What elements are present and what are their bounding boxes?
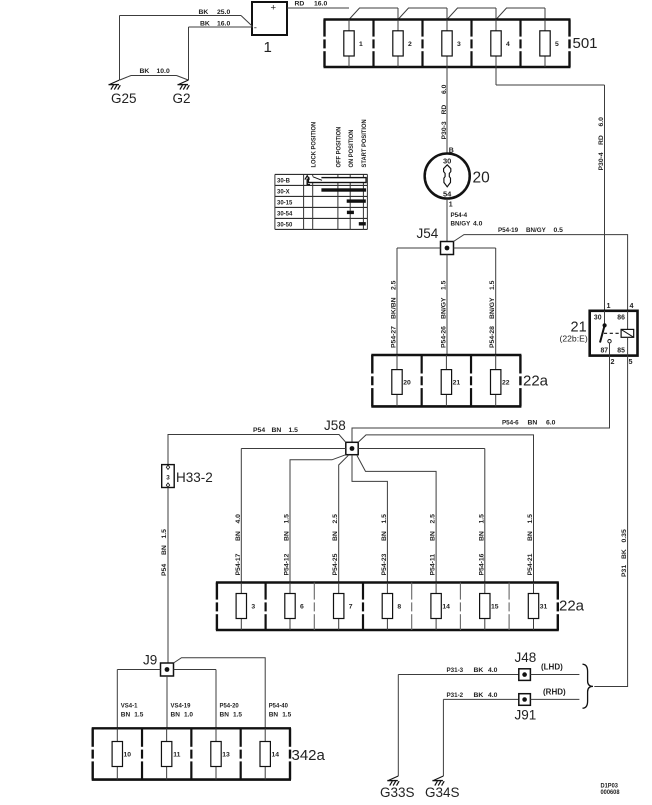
svg-text:1.0: 1.0 <box>184 712 193 719</box>
svg-text:10: 10 <box>124 752 132 759</box>
fuse 7 <box>334 583 353 631</box>
svg-text:P54-12: P54-12 <box>284 553 291 575</box>
wire P54-25 BN 2.5 to fuse 7 <box>332 455 349 583</box>
svg-text:4.0: 4.0 <box>473 221 483 228</box>
svg-text:BK: BK <box>199 9 209 16</box>
svg-text:13: 13 <box>222 752 230 759</box>
fuse 15 <box>480 583 499 631</box>
svg-text:30-50: 30-50 <box>277 221 293 228</box>
svg-text:G33S: G33S <box>380 785 415 800</box>
wire P30-4 RD 6.0 <box>496 67 605 311</box>
wire VS4-19 BN 1.0 to fuse 11 <box>167 676 193 728</box>
svg-text:1.5: 1.5 <box>282 712 291 719</box>
svg-text:14: 14 <box>271 752 279 759</box>
fusebox 501 internal bus link <box>349 8 545 20</box>
svg-text:(RHD): (RHD) <box>543 688 566 697</box>
wire P54-20 BN 1.5 to fuse 13 <box>174 670 243 729</box>
wire P54-19 BN/GY 0.5 <box>454 227 628 311</box>
svg-text:BN: BN <box>220 712 230 719</box>
svg-text:6.0: 6.0 <box>441 84 448 94</box>
fuse 3 <box>442 20 461 68</box>
svg-text:P54: P54 <box>253 427 265 434</box>
svg-text:2.5: 2.5 <box>332 514 339 524</box>
svg-text:20: 20 <box>403 380 411 387</box>
svg-text:1.5: 1.5 <box>478 514 485 524</box>
svg-text:342a: 342a <box>292 747 326 764</box>
ignition key symbol <box>444 165 451 187</box>
svg-text:P54-40: P54-40 <box>269 702 289 709</box>
wire P54 BN 1.5 to J9 <box>161 488 168 664</box>
svg-text:-: - <box>254 23 257 34</box>
fuse 13 <box>211 728 230 779</box>
svg-text:3: 3 <box>251 604 255 611</box>
wire J91 to brace <box>530 698 579 700</box>
svg-text:BN: BN <box>269 712 279 719</box>
junction J54 <box>441 242 454 255</box>
fuse 31 <box>528 583 547 631</box>
wire P54-6 BN 6.0 <box>352 356 610 443</box>
svg-text:BK: BK <box>621 549 628 559</box>
svg-text:6.0: 6.0 <box>598 117 605 127</box>
fuse 10 <box>112 728 131 779</box>
wire P30-3 RD 6.0 <box>441 67 448 154</box>
svg-text:20: 20 <box>473 170 491 187</box>
svg-text:J9: J9 <box>143 653 157 668</box>
svg-text:86: 86 <box>617 314 625 321</box>
svg-text:30-54: 30-54 <box>277 210 293 217</box>
fuse 2 <box>393 20 412 68</box>
table bar row 30-B with return arrow <box>305 176 366 185</box>
svg-text:6: 6 <box>300 604 304 611</box>
fusebox 22a lower <box>216 583 559 631</box>
svg-text:P54-23: P54-23 <box>381 553 388 575</box>
fuse 8 <box>382 583 401 631</box>
svg-text:4.0: 4.0 <box>235 514 242 524</box>
wire P31 BK 0.35 <box>594 356 628 687</box>
svg-text:3: 3 <box>166 475 170 482</box>
svg-text:15: 15 <box>491 604 499 611</box>
svg-text:P54-16: P54-16 <box>478 553 485 575</box>
svg-text:P54-26: P54-26 <box>441 326 448 348</box>
svg-text:P54: P54 <box>161 564 168 576</box>
svg-text:0.5: 0.5 <box>554 227 564 234</box>
svg-text:BN: BN <box>478 531 485 541</box>
svg-text:BN: BN <box>430 531 437 541</box>
svg-text:BK: BK <box>200 20 210 27</box>
ground G33S <box>387 776 399 786</box>
svg-text:BK: BK <box>474 692 484 699</box>
svg-text:J58: J58 <box>324 418 346 433</box>
ground G25 <box>109 80 121 90</box>
svg-text:4.0: 4.0 <box>488 667 498 674</box>
svg-text:6.0: 6.0 <box>546 420 556 427</box>
svg-text:7: 7 <box>349 604 353 611</box>
fuse 14 <box>431 583 450 631</box>
svg-text:30: 30 <box>594 314 602 321</box>
svg-text:P54-21: P54-21 <box>527 553 534 575</box>
fusebox 501 <box>324 20 571 68</box>
svg-text:P54-6: P54-6 <box>502 419 519 426</box>
svg-text:RD: RD <box>441 105 448 115</box>
svg-text:RD: RD <box>295 1 305 8</box>
svg-text:BN/GY: BN/GY <box>441 297 448 319</box>
wire P54-17 BN 4.0 to fuse 3 <box>235 449 346 583</box>
svg-text:BN: BN <box>272 427 282 434</box>
svg-text:BN/GY: BN/GY <box>451 220 471 227</box>
svg-text:1.5: 1.5 <box>233 712 242 719</box>
table bar row 30-50 <box>359 222 366 225</box>
document number D1P03 000608 <box>601 783 621 796</box>
svg-text:ON POSITION: ON POSITION <box>349 130 355 168</box>
svg-text:+: + <box>271 3 277 14</box>
wire BK 10.0 between G25 and G2 <box>120 68 188 80</box>
ground G2 <box>178 80 190 90</box>
svg-text:BN: BN <box>284 531 291 541</box>
svg-text:P54-28: P54-28 <box>489 326 496 348</box>
svg-text:J48: J48 <box>515 650 537 665</box>
svg-text:22: 22 <box>502 380 510 387</box>
relay contact and arm <box>600 311 607 343</box>
svg-text:BK: BK <box>140 68 150 75</box>
svg-text:BN: BN <box>528 420 538 427</box>
svg-text:BK: BK <box>474 667 484 674</box>
svg-text:BN/GY: BN/GY <box>489 297 496 319</box>
fuse 14 <box>260 728 279 779</box>
svg-text:P54-11: P54-11 <box>430 554 437 576</box>
wire P54-11 BN 2.5 to fuse 14 <box>357 456 437 583</box>
svg-text:P30-4: P30-4 <box>598 152 605 170</box>
svg-text:P31-2: P31-2 <box>447 692 464 699</box>
svg-text:J91: J91 <box>515 708 537 723</box>
svg-text:2.5: 2.5 <box>391 280 398 290</box>
svg-text:1: 1 <box>607 301 611 310</box>
svg-text:1: 1 <box>264 39 272 56</box>
svg-text:P54-20: P54-20 <box>220 702 240 709</box>
svg-text:BN: BN <box>381 531 388 541</box>
svg-text:0.35: 0.35 <box>621 529 628 542</box>
svg-text:21: 21 <box>453 380 461 387</box>
wire P54-28 BN/GY 1.5 <box>454 248 497 355</box>
svg-text:P54-25: P54-25 <box>332 553 339 575</box>
svg-text:(22b:E): (22b:E) <box>560 334 588 344</box>
fusebox 342a <box>92 728 291 779</box>
svg-text:P31: P31 <box>621 565 628 577</box>
svg-text:P31-3: P31-3 <box>447 667 464 674</box>
fuse 1 <box>344 20 363 68</box>
svg-text:14: 14 <box>442 604 450 611</box>
svg-text:31: 31 <box>540 604 548 611</box>
svg-text:G25: G25 <box>111 91 137 106</box>
svg-text:16.0: 16.0 <box>217 20 230 27</box>
wire P54-16 BN 1.5 to fuse 15 <box>358 449 485 583</box>
wire P54-40 BN 1.5 to fuse 14 <box>174 658 292 729</box>
wire P54-12 BN 1.5 to fuse 6 <box>284 455 346 583</box>
svg-text:BN: BN <box>235 531 242 541</box>
svg-text:4: 4 <box>630 301 634 310</box>
svg-text:G34S: G34S <box>425 785 460 800</box>
relay terminal 87 contact circle <box>608 337 628 355</box>
svg-text:G2: G2 <box>173 91 191 106</box>
svg-text:000608: 000608 <box>601 790 621 796</box>
svg-text:BK/BN: BK/BN <box>391 297 398 319</box>
junction J58 <box>346 442 358 454</box>
svg-text:BN: BN <box>332 531 339 541</box>
svg-text:J54: J54 <box>417 226 439 241</box>
wire P54 BN 1.5 <box>168 427 346 465</box>
svg-text:BN: BN <box>527 531 534 541</box>
svg-text:1.5: 1.5 <box>284 514 291 524</box>
junction J9 <box>161 663 174 676</box>
junction J91 <box>519 694 531 706</box>
svg-text:VS4-1: VS4-1 <box>121 702 138 709</box>
svg-text:1: 1 <box>449 202 453 209</box>
svg-text:OFF POSITION: OFF POSITION <box>336 127 342 168</box>
wire J48 to brace <box>530 674 579 676</box>
table bar row 30-54 <box>347 211 354 214</box>
svg-text:BN: BN <box>161 545 168 555</box>
svg-text:2.5: 2.5 <box>430 514 437 524</box>
svg-text:P54-19: P54-19 <box>498 227 518 234</box>
wire P54-4 BN/GY 4.0 <box>447 199 483 242</box>
ignition switch 20 <box>424 153 470 199</box>
fuse 5 <box>540 20 559 68</box>
table bar row 30-X <box>321 188 366 191</box>
table bar row 30-15 <box>347 199 366 202</box>
svg-text:START POSITION: START POSITION <box>362 119 368 167</box>
fuse 3 <box>236 583 255 631</box>
wire P31-3 BK 4.0 to G33S <box>398 667 519 776</box>
svg-text:2: 2 <box>611 357 615 366</box>
svg-text:54: 54 <box>443 190 452 199</box>
svg-text:85: 85 <box>617 347 625 354</box>
svg-text:BN: BN <box>171 712 181 719</box>
svg-text:1.5: 1.5 <box>381 514 388 524</box>
svg-text:22a: 22a <box>523 373 549 390</box>
svg-text:25.0: 25.0 <box>217 9 230 16</box>
svg-text:4: 4 <box>506 41 510 48</box>
wire VS4-1 BN 1.5 to fuse 10 <box>117 670 160 729</box>
svg-text:P30-3: P30-3 <box>441 121 448 139</box>
svg-text:1.5: 1.5 <box>161 529 168 539</box>
svg-text:BN/GY: BN/GY <box>526 227 546 234</box>
junction J48 <box>519 669 531 681</box>
battery 1 <box>252 2 287 35</box>
svg-text:P54-4: P54-4 <box>451 212 468 219</box>
svg-text:5: 5 <box>629 357 633 366</box>
brace LHD/RHD selector <box>583 664 594 708</box>
fuse 21 <box>441 355 460 406</box>
svg-text:30: 30 <box>443 157 451 166</box>
wire P54-23 BN 1.5 to fuse 8 <box>352 455 388 583</box>
svg-text:(LHD): (LHD) <box>541 663 563 672</box>
svg-text:1.5: 1.5 <box>441 280 448 290</box>
fuse 20 <box>392 355 411 406</box>
svg-text:P54-27: P54-27 <box>391 326 398 348</box>
svg-text:H33-2: H33-2 <box>176 470 213 485</box>
ignition switch position table <box>275 174 368 229</box>
svg-text:501: 501 <box>573 35 598 52</box>
svg-text:RD: RD <box>598 135 605 145</box>
svg-text:1.5: 1.5 <box>134 712 143 719</box>
fuse 22 <box>491 355 510 406</box>
ground G34S <box>432 776 444 786</box>
fuse 4 <box>491 20 510 68</box>
wire P54-26 BN/GY 1.5 <box>441 255 448 356</box>
wire BK 16.0 battery minus to G2 <box>189 20 253 80</box>
svg-text:8: 8 <box>397 604 401 611</box>
svg-text:30-B: 30-B <box>277 177 290 184</box>
fusebox 22a upper <box>371 355 521 406</box>
fuse 11 <box>161 728 180 779</box>
svg-text:87: 87 <box>601 347 609 354</box>
svg-text:11: 11 <box>173 752 180 759</box>
svg-text:1: 1 <box>359 41 363 48</box>
svg-text:10.0: 10.0 <box>157 68 170 75</box>
svg-text:4.0: 4.0 <box>488 692 498 699</box>
relay coil <box>604 311 634 338</box>
svg-text:2: 2 <box>408 41 412 48</box>
svg-text:3: 3 <box>457 41 461 48</box>
svg-text:1.5: 1.5 <box>527 514 534 524</box>
wire RD 16.0 <box>287 1 349 9</box>
svg-text:D1P03: D1P03 <box>601 783 619 789</box>
connector H33-2 pin 3 <box>162 465 175 488</box>
svg-text:VS4-19: VS4-19 <box>171 702 191 709</box>
wire P54-27 BK/BN 2.5 <box>391 248 441 355</box>
svg-text:B: B <box>449 148 454 155</box>
wire P54-21 BN 1.5 to fuse 31 <box>358 435 534 583</box>
svg-text:1.5: 1.5 <box>289 427 299 434</box>
svg-text:16.0: 16.0 <box>314 1 327 8</box>
svg-text:22a: 22a <box>559 598 585 615</box>
svg-text:30-15: 30-15 <box>277 199 293 206</box>
table column headers <box>311 119 368 167</box>
svg-text:5: 5 <box>555 41 559 48</box>
svg-text:30-X: 30-X <box>277 188 290 195</box>
wire P31-2 BK 4.0 to G34S <box>443 692 519 776</box>
fuse 6 <box>285 583 304 631</box>
relay 21 box <box>590 311 638 356</box>
wire BK 25.0 battery minus to G25 <box>120 9 253 80</box>
svg-text:BN: BN <box>121 712 131 719</box>
svg-text:LOCK POSITION: LOCK POSITION <box>311 122 317 168</box>
svg-text:1.5: 1.5 <box>489 280 496 290</box>
svg-text:P54-17: P54-17 <box>235 553 242 575</box>
